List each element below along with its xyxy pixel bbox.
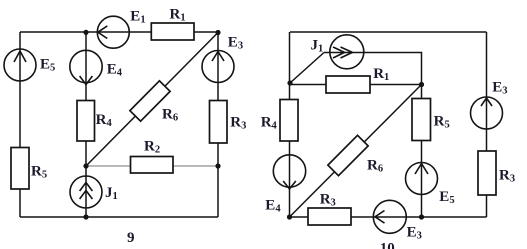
label: figure number 10 xyxy=(380,240,395,249)
resistor R2 (circuit 9) xyxy=(131,157,174,174)
svg-text:R3: R3 xyxy=(499,168,515,185)
voltage source E3 (circuit 10, right side) xyxy=(471,97,503,129)
svg-text:J1: J1 xyxy=(311,38,324,55)
node: junction dot middle-left (circuit 9) xyxy=(83,163,88,168)
wire: bottom wire of circuit 9 (y=217) xyxy=(20,216,218,218)
label R5 (circuit 10) xyxy=(434,114,450,131)
resistor R5 (circuit 9) xyxy=(11,148,29,190)
voltage source E1 (circuit 9) xyxy=(97,16,129,48)
node: junction dot right of R1 (circuit 10) xyxy=(419,82,424,87)
resistor R6 (circuit 10, rotated on diagonal) xyxy=(328,135,368,175)
label R3 (circuit 10, right side) xyxy=(499,168,515,185)
voltage source E5 (circuit 9) xyxy=(4,49,36,81)
svg-text:E5: E5 xyxy=(40,56,55,73)
resistor R1 (circuit 10) xyxy=(326,76,370,93)
label R6 (circuit 9) xyxy=(162,107,178,124)
node: junction dot bottom (circuit 9) xyxy=(83,214,88,219)
svg-text:R5: R5 xyxy=(434,114,450,131)
wire: middle-right vertical branch (x=421.5) xyxy=(421,85,423,218)
svg-text:E4: E4 xyxy=(107,62,123,79)
wire: R2 branch wire (gray, y=166) xyxy=(86,165,218,167)
label E3 (circuit 9) xyxy=(228,35,243,52)
label R5 (circuit 9) xyxy=(31,164,47,181)
svg-text:R3: R3 xyxy=(230,114,246,131)
label R4 (circuit 10) xyxy=(261,115,278,132)
svg-text:R6: R6 xyxy=(162,107,178,124)
label E3 (circuit 10, right) xyxy=(492,80,507,97)
svg-text:R5: R5 xyxy=(31,164,47,181)
node: junction dot left (circuit 10) xyxy=(287,80,292,85)
current source J1 (circuit 10, double chevron right) xyxy=(330,35,364,69)
node: junction dot bottom-right (circuit 10) xyxy=(419,214,424,219)
svg-text:E3: E3 xyxy=(492,80,507,97)
label R4 (circuit 9) xyxy=(96,112,113,129)
svg-text:E4: E4 xyxy=(265,197,281,214)
svg-text:E3: E3 xyxy=(407,225,422,242)
wire: R6 diagonal of circuit 9 xyxy=(86,33,218,167)
voltage source E3 (circuit 10, bottom, arrow left) xyxy=(373,200,406,233)
node: junction dot top-right (circuit 9) xyxy=(215,30,220,35)
voltage source E3 (circuit 9) xyxy=(202,51,234,83)
svg-text:E5: E5 xyxy=(439,189,454,206)
resistor R1 (circuit 9) xyxy=(151,23,194,40)
wire: right branch of circuit 9 (x=218) xyxy=(217,32,219,217)
label R6 (circuit 10) xyxy=(367,158,383,175)
wire: top wire of circuit 10 (y=32) xyxy=(290,31,487,33)
label R2 (circuit 9) xyxy=(144,138,160,155)
svg-text:R3: R3 xyxy=(320,191,336,208)
label E3 (circuit 10, bottom) xyxy=(407,225,422,242)
label R1 (circuit 10) xyxy=(373,66,389,83)
label E1 (circuit 9) xyxy=(130,8,145,25)
label E5 (circuit 10) xyxy=(439,189,454,206)
wire: left wire of circuit 9 (x=20) xyxy=(19,32,21,217)
label R3 (circuit 9) xyxy=(230,114,246,131)
resistor R4 (circuit 9) xyxy=(77,101,95,142)
resistor R6 (circuit 9, rotated on diagonal) xyxy=(130,81,170,121)
label R3 (circuit 10, bottom) xyxy=(320,191,336,208)
svg-text:R4: R4 xyxy=(96,112,113,129)
resistor R3 (circuit 9) xyxy=(210,101,228,144)
svg-text:J1: J1 xyxy=(105,185,118,202)
label: figure number 9 xyxy=(127,230,135,246)
label R1 (circuit 9) xyxy=(170,7,186,24)
label J1 (circuit 9) xyxy=(105,185,118,202)
label E4 (circuit 9) xyxy=(107,62,123,79)
resistor R3 (circuit 10, bottom) xyxy=(308,208,351,225)
wire: J1 horizontal branch (y=52.5) xyxy=(324,53,422,85)
node: junction dot middle-right (circuit 9) xyxy=(215,163,220,168)
svg-text:E1: E1 xyxy=(130,8,145,25)
svg-text:R1: R1 xyxy=(170,7,186,24)
resistor R5 (circuit 10) xyxy=(412,99,431,141)
label E5 (circuit 9) xyxy=(40,56,55,73)
resistor R4 (circuit 10) xyxy=(280,100,298,142)
node: junction dot bottom-left (circuit 10) xyxy=(287,214,292,219)
resistor R3 (circuit 10, right) xyxy=(478,151,496,195)
label E4 (circuit 10) xyxy=(265,197,281,214)
current source J1 (circuit 9, double chevron up) xyxy=(70,176,102,208)
wire: top wire of circuit 9 (y=32) xyxy=(20,31,218,33)
voltage source E4 (circuit 10) xyxy=(273,155,305,189)
svg-text:10: 10 xyxy=(380,240,395,249)
svg-text:E3: E3 xyxy=(228,35,243,52)
wire: J1 diagonal lead (circuit 10) xyxy=(290,53,324,84)
wire: bottom wire of circuit 10 (y=217) xyxy=(290,216,487,218)
svg-text:R1: R1 xyxy=(373,66,389,83)
svg-text:R2: R2 xyxy=(144,138,160,155)
voltage source E5 (circuit 10) xyxy=(406,163,438,195)
wire: R1 branch wire (y=84.5) xyxy=(290,84,422,86)
wire: middle vertical branch of circuit 9 (x=86) xyxy=(85,32,87,217)
svg-text:9: 9 xyxy=(127,230,135,246)
wire: right wire of circuit 10 (x=486.5) xyxy=(486,32,488,217)
label J1 (circuit 10) xyxy=(311,38,324,55)
svg-text:R6: R6 xyxy=(367,158,383,175)
node: junction dot top-middle (circuit 9) xyxy=(83,30,88,35)
wire: left branch of circuit 10 (x=289.5) xyxy=(289,32,291,217)
svg-text:R4: R4 xyxy=(261,115,278,132)
wire: R6 diagonal of circuit 10 xyxy=(290,85,422,218)
voltage source E4 (circuit 9) xyxy=(70,50,102,84)
